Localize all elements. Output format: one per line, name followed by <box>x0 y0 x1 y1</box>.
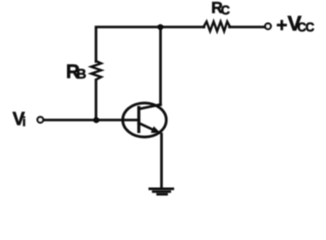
svg-text:CC: CC <box>297 20 314 34</box>
svg-text:B: B <box>76 66 86 82</box>
svg-text:+: + <box>276 15 287 36</box>
svg-text:C: C <box>221 3 230 17</box>
svg-text:i: i <box>22 114 26 129</box>
